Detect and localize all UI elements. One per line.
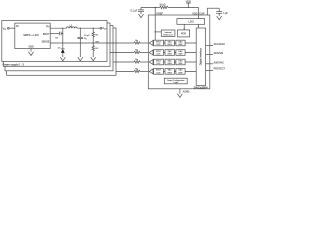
inductor L1: [67, 25, 78, 28]
power supply stacked sheet 2: [3, 23, 110, 66]
svg-text:DAC: DAC: [179, 40, 184, 43]
svg-text:10 µF: 10 µF: [84, 35, 90, 37]
wire LDO to POR: [183, 24, 185, 30]
regulator block LDO internal: [177, 19, 205, 25]
svg-text:SMPS + LDO: SMPS + LDO: [23, 33, 39, 37]
svg-text:Internal: Internal: [165, 31, 172, 34]
resistor R1 divider top: [92, 28, 99, 43]
pin VDD: [192, 7, 198, 18]
pin SDA/SDI: [206, 52, 224, 55]
node PH junction: [62, 28, 63, 29]
node boot junction: [62, 33, 63, 34]
svg-text:POR: POR: [181, 34, 186, 36]
pin VREF: [155, 7, 163, 40]
wire VIN to IN: [9, 27, 15, 29]
svg-text:PROTECT: PROTECT: [214, 68, 226, 71]
DAC IC DACx3204: [148, 15, 210, 89]
node internal reference junction: [155, 31, 162, 32]
svg-text:Digital interface: Digital interface: [200, 47, 203, 65]
wire supply 1 to DAC: [110, 52, 149, 54]
svg-text:10 kΩ: 10 kΩ: [159, 4, 165, 6]
svg-text:DAC: DAC: [168, 69, 173, 72]
svg-text:IN: IN: [16, 26, 19, 28]
svg-text:A0/SYNC: A0/SYNC: [214, 61, 225, 64]
regulator block SMPS + LDO: [15, 23, 50, 48]
wire PH to diode: [62, 28, 64, 49]
wire BOOT: [50, 32, 59, 34]
wire supply 2 to DAC: [113, 61, 149, 63]
power supply stacked sheet 4: [7, 28, 116, 75]
wire supply 0 feedback to DAC: [93, 42, 149, 44]
svg-text:LDO: LDO: [189, 21, 194, 24]
ground arrow below divider: [91, 57, 96, 61]
resistor RM channel 3: [134, 69, 141, 73]
svg-text:1 µF: 1 µF: [223, 13, 228, 15]
node inductor output junction: [80, 28, 81, 29]
svg-text:DAC: DAC: [179, 69, 184, 72]
block output configuration logic: [164, 78, 187, 84]
capacitor 1uF CAP pin: [216, 8, 228, 16]
wire SENSE to feedback node: [50, 42, 93, 44]
wire VREF rail: [141, 6, 198, 8]
ground arrow below output capacitor: [78, 57, 83, 61]
ground arrow below 1uF: [217, 16, 222, 20]
terminal VIN: [3, 27, 10, 31]
svg-text:DAC: DAC: [168, 50, 173, 53]
svg-text:DAC: DAC: [168, 59, 173, 62]
pin PROTECT: [206, 68, 226, 71]
svg-text:DAC: DAC: [168, 40, 173, 43]
svg-text:RM: RM: [135, 59, 139, 61]
block digital interface: [196, 28, 205, 85]
channel 0 row: [149, 40, 196, 46]
channel 2 row: [149, 59, 196, 65]
svg-text:GND: GND: [29, 47, 34, 49]
pin CAP: [199, 8, 219, 15]
resistor R2 divider bottom: [92, 43, 99, 57]
svg-text:VREF: VREF: [156, 12, 163, 15]
power supply stacked sheet 3: [5, 26, 113, 71]
ground arrow below diode: [60, 57, 65, 61]
label Power supply 0 - 3: [2, 62, 24, 66]
pin AGND: [180, 89, 190, 94]
capacitor CB bootstrap: [55, 32, 63, 40]
resistor RM channel 1: [134, 50, 141, 54]
terminal VOUT: [100, 27, 107, 30]
block internal reference: [161, 30, 175, 37]
resistor RM channel 0: [134, 40, 141, 44]
svg-text:DAC: DAC: [179, 59, 184, 62]
channel 1 row: [149, 50, 196, 56]
resistor RM channel 2: [134, 59, 141, 63]
pin A0/SYNC: [206, 61, 225, 64]
svg-text:REG: REG: [168, 72, 173, 74]
svg-text:PH: PH: [46, 27, 50, 29]
node divider top junction: [93, 28, 94, 29]
wire LDO to digital interface: [198, 24, 200, 28]
svg-text:VDD: VDD: [192, 12, 197, 15]
svg-text:Reference: Reference: [163, 34, 173, 37]
svg-text:REG: REG: [168, 44, 173, 46]
resistor 10 kOhm: [159, 4, 168, 8]
ground arrow below AGND: [177, 94, 182, 98]
power flag VDD: [186, 0, 191, 7]
svg-text:RM: RM: [135, 69, 139, 71]
channel 3 row: [149, 69, 196, 75]
svg-text:SCL/SCLK: SCL/SCLK: [214, 43, 226, 46]
ground arrow below 0.1uF: [139, 14, 144, 18]
svg-text:CAP: CAP: [199, 12, 204, 15]
power supply 0 main box: [2, 21, 107, 62]
svg-text:BOOT: BOOT: [43, 34, 50, 36]
svg-text:RM: RM: [135, 50, 139, 52]
wire supply 3 to DAC: [116, 70, 149, 72]
node feedback junction: [93, 41, 99, 43]
node VDD junction: [188, 7, 189, 8]
svg-text:DAC: DAC: [179, 50, 184, 53]
wire PH rail: [50, 27, 100, 29]
svg-text:REG: REG: [168, 63, 173, 65]
svg-text:SDA/SDI: SDA/SDI: [214, 52, 224, 55]
svg-text:0.1 µF: 0.1 µF: [131, 10, 138, 12]
block POR: [178, 30, 190, 37]
wire GND stem: [30, 49, 32, 52]
svg-text:REG: REG: [168, 53, 173, 55]
capacitor CO output: [78, 28, 91, 57]
svg-text:Logic: Logic: [173, 82, 178, 84]
svg-text:DACx3204: DACx3204: [194, 85, 208, 89]
svg-text:AGND: AGND: [183, 91, 190, 94]
svg-text:RM: RM: [135, 40, 139, 42]
svg-text:Power supply 0 - 3: Power supply 0 - 3: [2, 62, 24, 66]
capacitor 0.1uF VREF: [131, 7, 144, 13]
pin SCL/SCLK: [206, 43, 226, 46]
svg-text:SENSE: SENSE: [42, 42, 50, 44]
ground arrow below regulator: [29, 52, 34, 56]
node VREF junction: [155, 7, 156, 8]
diode D1: [58, 47, 65, 57]
